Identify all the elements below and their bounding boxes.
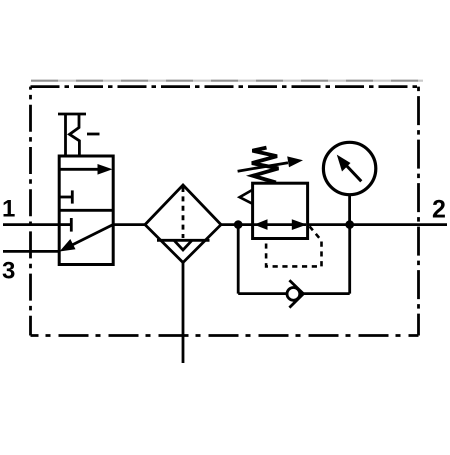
- relief vent triangle: [240, 190, 253, 204]
- junction node (gauge / bypass return): [345, 220, 354, 229]
- detent dash: [87, 133, 100, 136]
- wire: bypass right rise: [348, 225, 351, 294]
- blocked port T (upper box): [59, 190, 72, 203]
- regulator flow path with arrows: [254, 219, 307, 230]
- separator baffle line: [157, 239, 210, 242]
- wire: filter to regulator: [220, 223, 254, 226]
- wire: bypass left drop: [237, 225, 240, 294]
- junction node (filter outlet / bypass tap): [234, 220, 243, 229]
- wire: bypass bottom run: [238, 292, 350, 295]
- valve body: [59, 156, 113, 265]
- valve position divider: [59, 209, 113, 212]
- filter element (dashed centerline): [182, 187, 185, 238]
- svg-text:1: 1: [2, 196, 15, 223]
- condensate triangle: [174, 240, 192, 250]
- wire: port 1 inlet line: [3, 223, 60, 226]
- wire: valve to filter: [112, 223, 146, 226]
- pressure gauge G1: [323, 142, 375, 224]
- wire: regulator to port 2: [307, 223, 447, 226]
- check valve ball: [287, 288, 300, 301]
- enclosure frame top ghost line (gray): [31, 80, 423, 82]
- pressure regulator R1: [238, 148, 322, 267]
- filter F1 with water separator: [145, 185, 221, 363]
- pilot feedback line (dashed): [266, 226, 321, 266]
- wire: port 3 exhaust line: [3, 250, 60, 253]
- wire: condensate drain line: [182, 262, 185, 363]
- on-off valve V1 (3/2-way, manually operated): [58, 114, 113, 265]
- svg-text:3: 3: [2, 258, 15, 285]
- flow arrow (open position): [59, 164, 112, 175]
- filter diamond body: [145, 185, 221, 263]
- manual actuator T-handle: [58, 114, 86, 157]
- svg-text:2: 2: [432, 196, 446, 224]
- enclosure frame (dash-dot boundary): [31, 87, 419, 336]
- detent latch zigzag: [70, 114, 80, 157]
- adjustment arrow: [238, 156, 303, 171]
- adjustment spring: [252, 148, 279, 183]
- gauge needle: [344, 163, 361, 181]
- blocked port T (lower box): [59, 218, 71, 232]
- wire: gauge stem: [348, 195, 351, 225]
- gauge dial circle: [323, 142, 375, 194]
- check valve seat: [289, 280, 303, 307]
- exhaust diagonal arrow (closed position): [60, 225, 114, 252]
- regulator body: [253, 183, 308, 238]
- bypass branch with check valve: [238, 225, 350, 308]
